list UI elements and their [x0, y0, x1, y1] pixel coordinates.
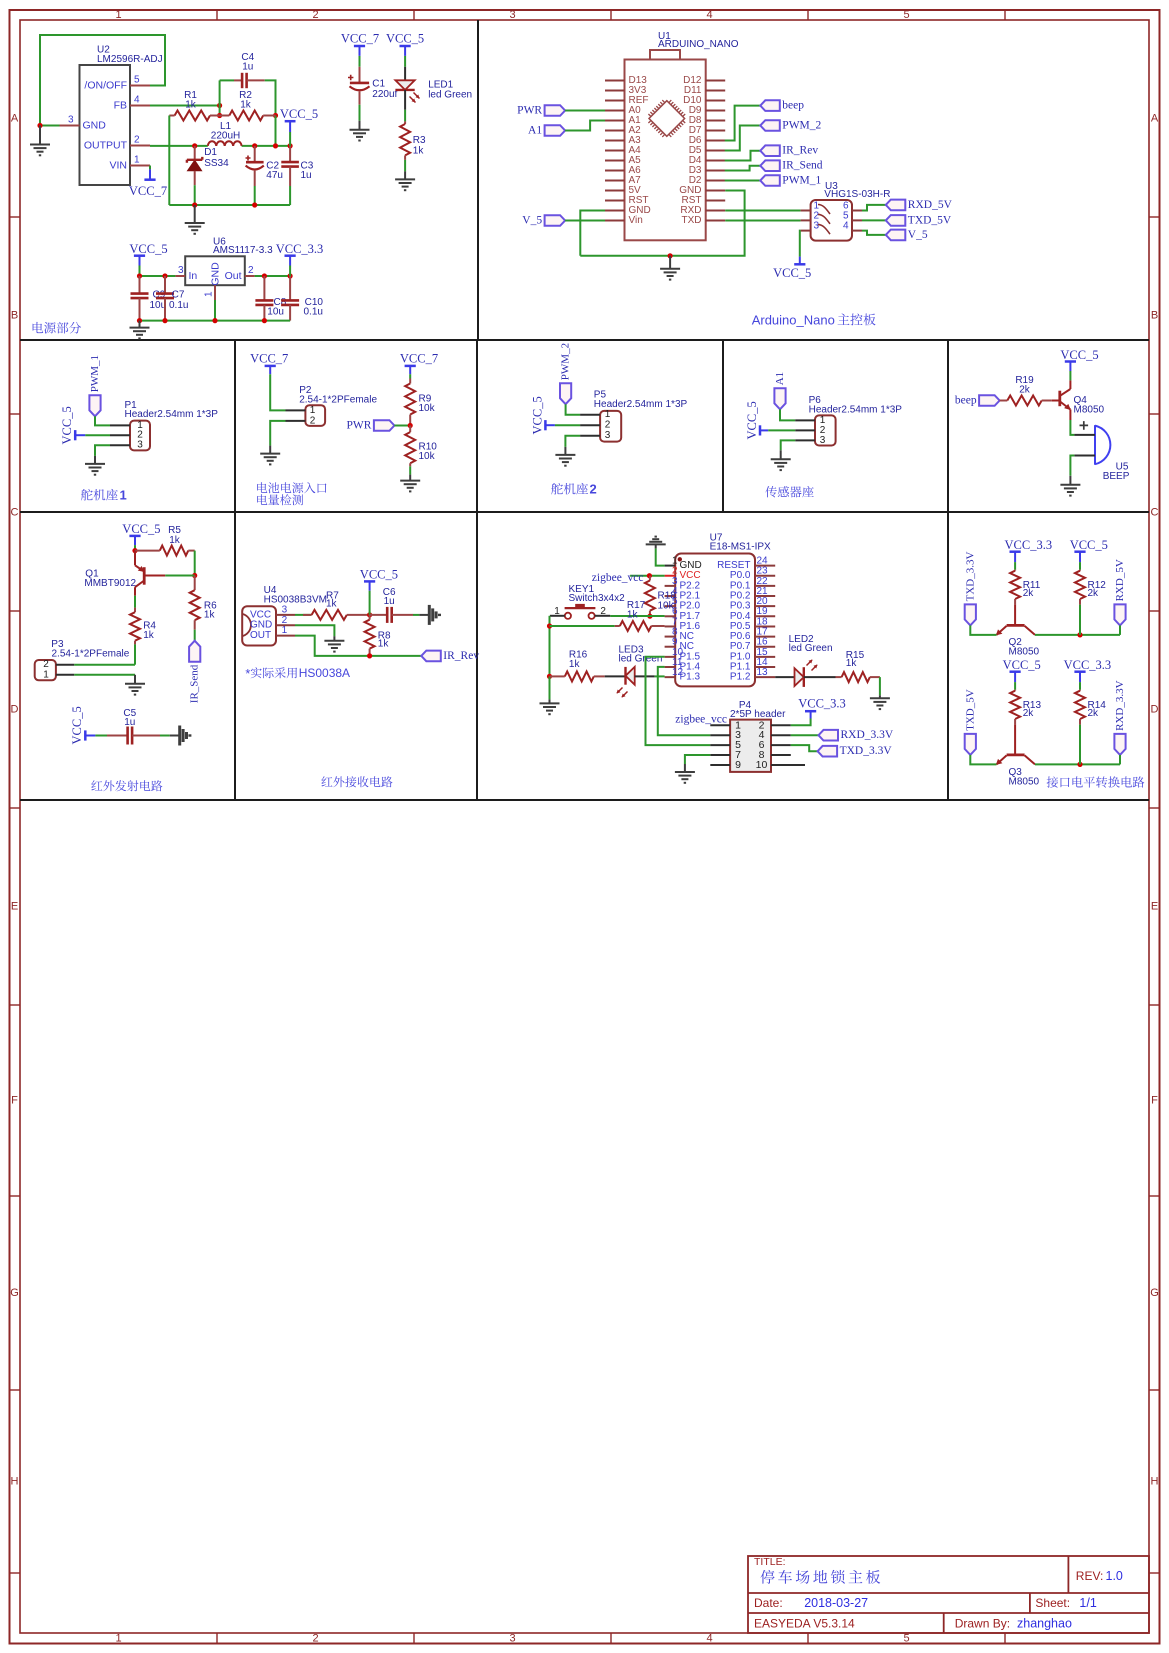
svg-text:IR_Rev: IR_Rev — [782, 145, 818, 157]
svg-text:10u: 10u — [267, 307, 284, 318]
U1 chip icon diamond — [648, 100, 685, 137]
junction key/R16 — [547, 674, 552, 679]
wire A1 to pin A1 — [565, 121, 605, 131]
svg-text:1: 1 — [134, 155, 140, 166]
svg-text:2: 2 — [605, 420, 611, 431]
ground below C1 — [359, 121, 361, 130]
wire VCC_7 to C1 — [359, 56, 361, 67]
svg-text:V_5: V_5 — [908, 229, 928, 241]
svg-text:VCC_3.3: VCC_3.3 — [276, 242, 324, 256]
svg-text:1: 1 — [310, 405, 316, 416]
ground at P5 — [564, 447, 566, 455]
net port TXD_3.3V — [818, 746, 838, 757]
wire P1 pin3 to ground — [95, 445, 110, 456]
power flag VCC_5 above R8 — [364, 580, 375, 583]
wire U7 pin1 GND up — [656, 548, 665, 565]
svg-text:beep: beep — [782, 100, 804, 112]
svg-text:zhanghao: zhanghao — [1017, 1617, 1072, 1631]
chassis ground at C6 — [419, 614, 429, 616]
svg-text:1k: 1k — [169, 535, 181, 546]
resistor R6 1k — [194, 576, 196, 591]
caption duojizuo1 — [81, 489, 93, 501]
svg-text:REV:: REV: — [1076, 1569, 1104, 1583]
svg-text:VCC_5: VCC_5 — [1070, 538, 1108, 552]
ground below R10 — [409, 475, 411, 481]
svg-text:C: C — [11, 507, 19, 519]
ground below buzzer — [1069, 476, 1071, 485]
svg-text:1: 1 — [282, 625, 288, 636]
svg-text:M8050: M8050 — [1074, 405, 1105, 416]
wire D5 to PWM_2 — [725, 126, 761, 151]
svg-text:RXD_5V: RXD_5V — [1114, 559, 1126, 601]
wire PWR to divider node — [394, 425, 410, 427]
svg-text:VCC_5: VCC_5 — [70, 706, 84, 744]
junction R12 bottom — [1077, 632, 1082, 637]
net port TXD_5V — [886, 215, 906, 226]
net port IR_Rev flag — [421, 651, 441, 662]
U4 pin2 stub — [276, 624, 295, 626]
capacitor C1 220uf electrolytic — [359, 67, 361, 83]
junction zigbee_vcc R18 — [647, 573, 652, 578]
svg-text:GND: GND — [250, 620, 272, 631]
wire VCC_7 to P2 pin1 — [270, 374, 285, 410]
wire U2 OUTPUT row — [150, 145, 208, 147]
svg-text:VCC_5: VCC_5 — [386, 32, 424, 46]
svg-text:beep: beep — [955, 395, 977, 407]
svg-text:LM2596R-ADJ: LM2596R-ADJ — [97, 54, 163, 65]
wire KEY1 pin1 down — [549, 616, 551, 677]
svg-text:Out: Out — [225, 270, 242, 282]
svg-text:PWM_1: PWM_1 — [89, 355, 101, 392]
svg-text:TXD_3.3V: TXD_3.3V — [964, 552, 976, 602]
ground at P6 — [780, 450, 782, 459]
svg-text:VCC_7: VCC_7 — [341, 32, 379, 46]
svg-text:2: 2 — [590, 482, 597, 497]
wire TXD to U3 pin2 — [725, 220, 800, 222]
U2 pin 3 stub — [60, 125, 80, 127]
svg-text:GND: GND — [210, 262, 222, 286]
svg-text:5: 5 — [134, 75, 140, 86]
U1 left pins D13..Vin — [605, 80, 625, 82]
svg-text:zigbee_vcc: zigbee_vcc — [675, 714, 727, 726]
junction key/R17 — [547, 623, 552, 628]
header P4 2*5P header — [730, 720, 771, 772]
svg-text:TXD_3.3V: TXD_3.3V — [840, 745, 893, 757]
wire U4 OUT to IR_Rev — [295, 636, 421, 656]
svg-text:2018-03-27: 2018-03-27 — [804, 1596, 868, 1610]
receiver U4 HS0038B3VM — [242, 606, 276, 645]
junction output-C2 — [252, 143, 257, 148]
wire R3 to ground — [404, 160, 406, 172]
svg-text:VCC_5: VCC_5 — [122, 522, 160, 536]
U7 right pins 24-13 — [755, 565, 775, 567]
U3 pin 2 stub — [801, 219, 811, 221]
svg-text:In: In — [189, 270, 198, 282]
power flag VCC_5 — [1010, 670, 1021, 673]
P4 right pins 2,4,6,8,10 — [771, 724, 791, 726]
junction output-C4branch — [273, 143, 278, 148]
wire VCC_5 to node — [134, 545, 136, 551]
wire RXD to U3 pin1 — [725, 210, 800, 212]
U1 ground rail — [580, 191, 744, 256]
svg-text:2k: 2k — [1088, 588, 1100, 599]
svg-text:D: D — [11, 704, 19, 716]
svg-text:led Green: led Green — [789, 643, 833, 654]
transistor Q3 M8050 NPN — [1014, 725, 1016, 755]
caption jiekou dianping zhuanhuan dianlu — [1047, 776, 1058, 787]
wire VCC_5 to P6 pin2 — [768, 429, 795, 431]
U2 pin 1 stub — [130, 165, 150, 167]
svg-text:2k: 2k — [1023, 588, 1035, 599]
junction rail C7 — [162, 318, 167, 323]
regulator U2 LM2596R-ADJ — [80, 65, 131, 185]
junction R7/VCC/C6/R8 — [367, 612, 372, 617]
svg-text:Arduino_Nano: Arduino_Nano — [752, 312, 835, 327]
P3 pin2 stub — [56, 664, 74, 666]
net port PWR — [545, 105, 566, 116]
wire D6 to beep — [725, 106, 761, 141]
svg-text:1k: 1k — [185, 100, 197, 111]
U7 left pins 1-12 — [665, 565, 676, 567]
svg-text:4: 4 — [134, 95, 140, 106]
wire U3 pin5 to TXD_5V — [862, 219, 886, 221]
led LED1 led Green — [404, 67, 406, 81]
ground at U6 rail — [139, 321, 141, 328]
svg-text:1: 1 — [115, 9, 121, 21]
svg-text:5: 5 — [903, 1633, 909, 1645]
svg-text:C: C — [1151, 507, 1159, 519]
wire C6 to chassis ground — [413, 614, 419, 616]
net port A1 flag — [774, 388, 785, 409]
wire V_5 to Vin — [565, 220, 605, 222]
svg-text:VCC_5: VCC_5 — [360, 568, 398, 582]
svg-text:V_5: V_5 — [522, 215, 542, 227]
svg-text:3: 3 — [68, 115, 74, 126]
ground below U1 — [669, 256, 671, 269]
svg-text:F: F — [11, 1095, 18, 1107]
wire U6 Out to VCC_3.3 — [255, 275, 291, 277]
KEY1 lead left — [550, 615, 565, 617]
transistor Q1 MMBT9012 PNP — [134, 551, 136, 566]
wire VCC_5 to P1 pin2 — [85, 434, 110, 436]
svg-text:VCC_7: VCC_7 — [400, 352, 438, 366]
svg-text:2k: 2k — [1023, 708, 1035, 719]
caption dianchi dianyuan rukou — [257, 482, 267, 493]
U4 pin3 stub — [276, 614, 295, 616]
P5 pin 2 stub — [580, 424, 600, 426]
junction rail-C2 — [252, 202, 257, 207]
svg-text:C7: C7 — [172, 290, 185, 301]
capacitor C9 10u — [139, 276, 141, 294]
net port RXD_5V — [886, 200, 906, 211]
svg-text:led Green: led Green — [619, 654, 663, 665]
wire R17 row — [550, 625, 615, 627]
wire U7 pin2 VCC — [630, 575, 665, 577]
P6 pin 2 stub — [795, 429, 815, 431]
power flag VCC_5 at output — [285, 120, 296, 123]
svg-text:5: 5 — [903, 9, 909, 21]
svg-text:VCC_3.3: VCC_3.3 — [1005, 538, 1053, 552]
power flag VCC_5 at P5 — [544, 420, 547, 430]
svg-text:1k: 1k — [240, 100, 252, 111]
svg-text:F: F — [1151, 1095, 1158, 1107]
power flag VCC_5 at U6 input — [134, 254, 145, 257]
resistor R11 2k — [1014, 570, 1016, 571]
svg-text:H: H — [11, 1476, 19, 1488]
svg-text:*: * — [245, 667, 250, 681]
svg-text:1k: 1k — [846, 658, 858, 669]
wire U3 pin4 to V_5 — [862, 231, 886, 235]
svg-text:M8050: M8050 — [1009, 776, 1040, 787]
wire LED3 to P1.3 — [655, 675, 665, 677]
resistor R14 2k — [1079, 690, 1081, 691]
svg-text:B: B — [1151, 310, 1158, 322]
resistor R8 1k — [369, 615, 371, 620]
net port PWR flag — [374, 420, 395, 431]
wire P4 pin7 to ground — [685, 755, 710, 764]
svg-text:2k: 2k — [1088, 708, 1100, 719]
wire P4 pin4 to RXD_3.3V — [791, 734, 819, 736]
wire P5 pin3 to ground — [565, 436, 580, 447]
header P3 2.54-1*2PFemale — [35, 660, 56, 680]
wire C1 to ground — [359, 105, 361, 121]
svg-text:led Green: led Green — [428, 90, 472, 101]
wire D2 to PWM_1 — [725, 180, 761, 182]
svg-text:PWM_1: PWM_1 — [782, 175, 821, 187]
power flag VCC_7 at C1 — [354, 45, 365, 48]
wire GND pin3 — [40, 125, 60, 127]
svg-text:1k: 1k — [627, 609, 639, 620]
svg-text:TITLE:: TITLE: — [754, 1556, 786, 1568]
net port IR_Rev — [760, 145, 780, 156]
mcu U1 ARDUINO_NANO — [625, 60, 706, 241]
P1 pin 2 stub — [110, 434, 130, 436]
svg-text:1k: 1k — [143, 630, 155, 641]
junction R2 right node — [273, 113, 278, 118]
net port beep — [760, 100, 780, 111]
U3 pin 4 stub — [852, 230, 862, 232]
capacitor C7 0.1u — [164, 276, 166, 294]
U3 pin 6 stub — [852, 210, 862, 212]
wire VCC_3.3 to P4 pin2 — [791, 719, 811, 726]
diode D1 SS34 — [194, 146, 196, 160]
svg-text:ARDUINO_NANO: ARDUINO_NANO — [658, 39, 739, 50]
junction rail U6 gnd — [212, 318, 217, 323]
svg-text:1u: 1u — [124, 717, 135, 728]
P2 pin1 stub — [286, 409, 306, 411]
svg-text:1: 1 — [204, 291, 215, 297]
net port IR_Send — [760, 160, 780, 171]
power flag VCC_5 at Q4 — [1065, 360, 1076, 363]
junction U1 rail — [668, 253, 673, 258]
svg-text:2: 2 — [312, 1633, 318, 1645]
U6 pin3 stub — [175, 275, 185, 277]
svg-text:VCC_3.3: VCC_3.3 — [798, 697, 846, 711]
svg-text:D1: D1 — [204, 147, 217, 158]
svg-text:Header2.54mm 1*3P: Header2.54mm 1*3P — [125, 409, 219, 420]
svg-text:1u: 1u — [242, 62, 253, 73]
svg-text:HS0038A: HS0038A — [299, 666, 350, 680]
wire D3 to IR_Send — [725, 166, 761, 171]
svg-text:TXD_5V: TXD_5V — [908, 214, 952, 226]
U4 pin1 stub — [276, 635, 295, 637]
svg-text:PWR: PWR — [517, 105, 542, 117]
wire R1 left branch down — [168, 116, 170, 206]
svg-text:3: 3 — [605, 430, 611, 441]
svg-text:A: A — [11, 113, 19, 125]
svg-text:10k: 10k — [419, 451, 436, 462]
junction rail-D1 — [192, 202, 197, 207]
svg-text:P1.2: P1.2 — [730, 672, 751, 683]
wire A1 to P6 pin1 — [780, 409, 795, 420]
svg-text:PWM_2: PWM_2 — [560, 343, 572, 380]
wire U4 VCC to R7 — [295, 614, 312, 616]
wire VCC_5 down to junction — [369, 591, 371, 615]
resistor R10 10k — [409, 426, 411, 433]
power flag VCC_7 at R9 — [405, 365, 416, 368]
wire C5 to chassis ground — [160, 735, 170, 737]
P1 pin 3 stub — [110, 444, 130, 446]
junction R18 bottom P1.7 — [647, 614, 652, 619]
net port A1 — [545, 125, 566, 136]
P1 pin 1 stub — [110, 424, 130, 426]
svg-text:IR_Send: IR_Send — [782, 160, 823, 172]
wire VCC_5 to C5 — [95, 735, 107, 737]
wire P2 pin2 to ground — [270, 421, 285, 446]
svg-text:B: B — [11, 310, 18, 322]
svg-text:VCC_5: VCC_5 — [1060, 348, 1098, 362]
svg-text:1k: 1k — [569, 659, 581, 670]
svg-text:TXD: TXD — [682, 215, 702, 226]
net port PWM_2 flag — [560, 383, 571, 404]
caption hongwai jieshou dianlu — [321, 776, 332, 786]
svg-text:VCC_3.3: VCC_3.3 — [1064, 658, 1112, 672]
ground at P3 — [134, 675, 136, 684]
wire C4 top left segment — [220, 79, 234, 81]
wire TXD_3.3V to emitter — [970, 625, 996, 635]
svg-text:10k: 10k — [419, 403, 436, 414]
wire P1.4 to P4 pin3 — [658, 667, 711, 735]
svg-text:220uH: 220uH — [211, 131, 240, 142]
ground above U7 pin1 — [655, 544, 657, 548]
svg-text:1: 1 — [120, 488, 127, 503]
junction C8 top — [262, 273, 267, 278]
ground at P1 — [94, 456, 96, 464]
wire U2 FB to node — [150, 105, 220, 107]
svg-text:zigbee_vcc: zigbee_vcc — [592, 572, 644, 584]
wire U2 pin5 to GND loop — [40, 35, 165, 126]
svg-text:A1: A1 — [528, 125, 542, 137]
power flag VCC_5 at Q1 — [129, 535, 140, 538]
capacitor C8 10u — [263, 276, 265, 300]
resistor R9 10k — [409, 379, 411, 384]
net port RXD_3.3V — [1114, 734, 1125, 755]
svg-text:D: D — [1151, 704, 1159, 716]
svg-text:0.1u: 0.1u — [304, 307, 323, 318]
svg-text:10k: 10k — [658, 601, 675, 612]
header P5 Header2.54mm 1*3P — [600, 411, 621, 442]
wire D1 to bottom rail — [194, 185, 196, 205]
U6 pin2 stub — [245, 275, 255, 277]
resistor R2 1k — [220, 115, 230, 117]
svg-text:0.1u: 0.1u — [169, 300, 188, 311]
svg-text:TXD_5V: TXD_5V — [964, 689, 976, 731]
wire P3 pin2 to R4 — [74, 664, 135, 666]
wire LED2 to R15 — [804, 676, 836, 678]
svg-text:PWR: PWR — [346, 420, 371, 432]
svg-text:1k: 1k — [413, 145, 425, 156]
net port V_5 — [545, 215, 566, 226]
wire C4 left branch up — [219, 80, 221, 105]
svg-text:VCC_5: VCC_5 — [280, 107, 318, 121]
svg-text:OUT: OUT — [250, 630, 271, 641]
svg-text:G: G — [10, 1287, 19, 1299]
junction node at U2 GND — [37, 123, 42, 128]
wire base to node — [165, 575, 194, 577]
U3 pin 1 stub — [801, 210, 811, 212]
svg-text:H: H — [1151, 1476, 1159, 1488]
svg-text:1: 1 — [43, 669, 49, 680]
resistor R16 1k — [550, 675, 565, 677]
wire VCC_5 to U6 In — [140, 275, 176, 277]
junction C9 top — [137, 273, 142, 278]
power flag VCC_5 at P1 — [74, 430, 77, 440]
P4 left pins 1,3,5,7,9 — [710, 724, 730, 726]
junction output-D1 — [192, 143, 197, 148]
power flag VCC_7 at P2 — [265, 365, 276, 368]
capacitor C5 1u — [107, 735, 128, 737]
resistor R7 1k — [303, 614, 312, 616]
junction output-VCC5 — [288, 143, 293, 148]
buzzer U5 BEEP — [1095, 425, 1110, 465]
capacitor C3 1u — [289, 146, 291, 162]
svg-text:E18-MS1-IPX: E18-MS1-IPX — [710, 542, 771, 553]
svg-text:G: G — [1150, 1287, 1159, 1299]
wire U4 GND to ground — [295, 625, 334, 636]
power flag VCC_3.3 — [1074, 670, 1085, 673]
resistor R19 2k — [1000, 400, 1008, 402]
header P1 Header2.54mm 1*3P — [130, 421, 150, 451]
svg-text:MMBT9012: MMBT9012 — [84, 578, 136, 589]
resistor R13 2k — [1014, 690, 1016, 691]
switch U3 VHG1S-03H-R — [811, 200, 852, 241]
svg-text:VIN: VIN — [109, 160, 127, 172]
power flag VCC_5 below U3 — [799, 257, 801, 265]
P5 pin 3 stub — [580, 435, 600, 437]
junction R14 bottom — [1077, 762, 1082, 767]
svg-text:RXD_3.3V: RXD_3.3V — [841, 729, 894, 741]
wire LED1 to R3 — [404, 110, 406, 122]
wire C4 right down to R2 right node — [265, 80, 276, 115]
svg-text:IR_Rev: IR_Rev — [443, 650, 479, 662]
svg-text:Date:: Date: — [754, 1596, 783, 1610]
junction C10 top — [288, 273, 293, 278]
wire FB node down to R1/R2 node — [219, 106, 221, 116]
svg-text:3: 3 — [509, 9, 515, 21]
wire U6 pin1 to rail — [214, 300, 216, 321]
U3 pin 3 stub — [801, 230, 811, 232]
wire U3 pin3 to VCC_5 — [799, 231, 802, 257]
svg-text:1k: 1k — [326, 598, 338, 609]
wire PWM_2 to P5 pin1 — [566, 404, 581, 415]
led LED3 led Green — [605, 675, 626, 677]
U3 pin 5 stub — [852, 219, 862, 221]
net port TXD_3.3V — [965, 604, 976, 625]
capacitor C6 1u — [370, 614, 388, 616]
svg-text:10: 10 — [756, 759, 768, 771]
chassis ground at C5 — [170, 735, 180, 737]
svg-text:2: 2 — [282, 615, 288, 626]
